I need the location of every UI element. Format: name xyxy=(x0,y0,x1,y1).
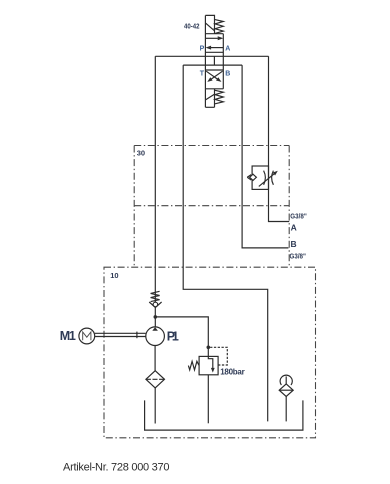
svg-text:P1: P1 xyxy=(167,329,179,343)
svg-text:P: P xyxy=(200,45,205,52)
svg-text:Artikel-Nr. 728 000 370: Artikel-Nr. 728 000 370 xyxy=(63,462,170,474)
svg-text:40-42: 40-42 xyxy=(184,24,200,31)
svg-text:M1: M1 xyxy=(60,329,76,343)
svg-text:10: 10 xyxy=(110,271,118,280)
svg-text:T: T xyxy=(200,71,205,78)
svg-text:B: B xyxy=(291,239,297,249)
svg-text:A: A xyxy=(225,45,230,52)
svg-text:B: B xyxy=(225,70,230,77)
svg-text:180bar: 180bar xyxy=(220,368,245,377)
svg-text:30: 30 xyxy=(137,148,145,157)
svg-text:A: A xyxy=(291,222,297,232)
svg-text:G3/8": G3/8" xyxy=(290,212,307,221)
svg-text:G3/8": G3/8" xyxy=(290,251,307,260)
